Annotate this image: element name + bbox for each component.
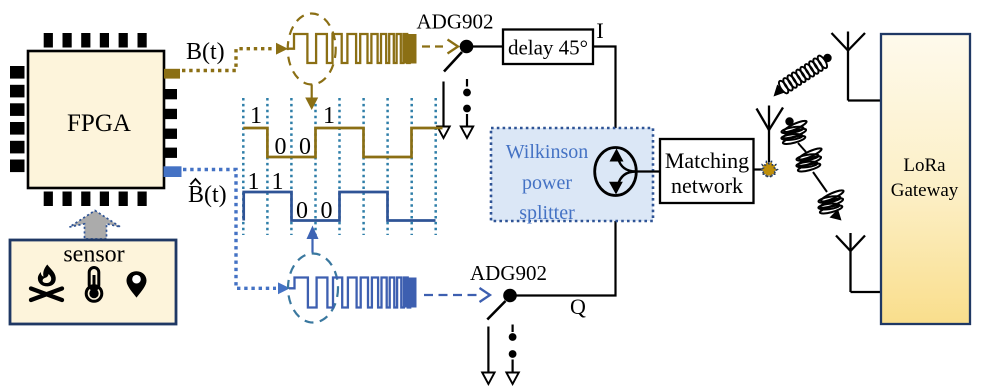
wire switch1 to delay box (472, 45, 503, 47)
Matching network box (660, 139, 754, 203)
blue dashed arrow to switch 2 (424, 294, 480, 296)
FPGA right blue pin Bbar(t) (164, 166, 182, 177)
delay 45 box (503, 30, 593, 65)
coil arrowhead (toward tag) (774, 85, 786, 97)
blue arrow ellipse -> waveform (up) (311, 238, 313, 253)
svg-text:0: 0 (321, 198, 333, 224)
FPGA right gold pin B(t) (164, 69, 180, 79)
svg-text:network: network (671, 173, 743, 198)
backscatter burst 1 (783, 119, 808, 134)
svg-text:I: I (596, 18, 603, 43)
switch U2 throw 1 (open) (442, 82, 444, 128)
svg-text:power: power (522, 172, 572, 194)
backscatter burst 2 (798, 146, 823, 161)
gold dashed arrow to switch 1 (422, 45, 448, 47)
svg-text:LoRa: LoRa (903, 155, 946, 176)
svg-text:0: 0 (275, 134, 287, 160)
switch U3 throw 1 (open) (487, 327, 489, 373)
location pin icon (127, 271, 147, 297)
switch U3 pole (503, 289, 517, 303)
svg-text:Q: Q (570, 294, 586, 319)
svg-text:1: 1 (323, 103, 335, 129)
svg-text:FPGA: FPGA (67, 110, 131, 137)
svg-text:0: 0 (296, 198, 308, 224)
FPGA U1 body (28, 51, 164, 188)
svg-text:ADG902: ADG902 (470, 261, 547, 285)
switch U3 lever (487, 301, 505, 320)
gold waveform B(t) (243, 128, 442, 157)
svg-text:splitter: splitter (519, 202, 575, 224)
blue waveform Bbar(t) (244, 192, 436, 221)
switch U3 throw 2 (dots) (511, 325, 513, 333)
blue chirp signal (289, 278, 410, 308)
coil wave gateway -> tag (777, 79, 790, 94)
switch U2 lever (444, 52, 462, 72)
svg-text:1: 1 (272, 169, 284, 195)
svg-text:sensor: sensor (63, 242, 124, 268)
svg-text:B(t): B(t) (188, 182, 227, 208)
gateway bottom antenna (836, 233, 881, 292)
backscatter arrowhead (toward gateway) (830, 209, 842, 221)
gateway top antenna (832, 32, 882, 101)
wire splitter -> matching network (636, 170, 660, 172)
dashed gold ellipse (chirp generator) (288, 14, 336, 85)
sensor box (10, 240, 176, 324)
Wilkinson power splitter box (491, 128, 653, 221)
dotted time grid (243, 98, 435, 235)
svg-text:1: 1 (248, 169, 260, 195)
combiner circle U4 (595, 148, 637, 196)
FPGA right pins (165, 89, 178, 158)
svg-text:1: 1 (250, 103, 262, 129)
svg-text:delay 45°: delay 45° (508, 36, 588, 60)
FPGA bottom pins (44, 192, 147, 207)
gold arrow ellipse -> waveform (311, 85, 313, 99)
dashed blue ellipse (288, 254, 338, 323)
svg-text:0: 0 (299, 134, 311, 160)
backscatter dot near tag (785, 117, 793, 125)
tag antenna (757, 106, 784, 163)
switch U2 ADG902 pole (460, 40, 474, 54)
thermometer icon (86, 268, 102, 302)
switch U2 throw 2 (dots) (466, 79, 468, 87)
LoRa Gateway box (881, 34, 970, 324)
blue arrowhead into ellipse (278, 282, 290, 294)
wire delay -> splitter (I branch) (593, 47, 616, 152)
svg-text:B(t): B(t) (186, 39, 225, 65)
svg-text:Wilkinson: Wilkinson (506, 141, 589, 163)
wire to antenna node (754, 168, 764, 170)
gold star node (761, 162, 778, 178)
wire switch2 -> splitter (Q branch) (516, 193, 616, 296)
gray arrow sensor->FPGA (70, 211, 121, 240)
svg-text:Matching: Matching (665, 148, 749, 173)
gold chirp signal B(t) (289, 34, 410, 63)
fire icon (31, 265, 62, 301)
FPGA top pins (44, 33, 147, 48)
gold arrowhead into ellipse (276, 43, 288, 55)
svg-text:ADG902: ADG902 (417, 10, 494, 34)
blue dotted wire from pin (183, 170, 276, 289)
FPGA left pins (10, 66, 25, 172)
coil end dot (823, 54, 831, 62)
svg-text:Gateway: Gateway (891, 180, 959, 201)
combiner curves and arrows (618, 158, 636, 172)
backscatter burst 3 (820, 188, 845, 203)
gold dotted wire from B(t) pin (182, 49, 274, 71)
